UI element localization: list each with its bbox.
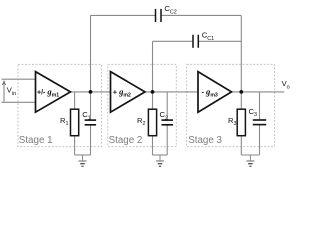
wire stage3 output to Vo — [232, 91, 285, 93]
capacitor C1 — [85, 120, 97, 125]
resistor R1 — [71, 109, 79, 136]
svg-text:Stage 3: Stage 3 — [188, 135, 222, 146]
wire R1 riser — [74, 92, 76, 109]
wire ground join stage1 — [75, 154, 91, 156]
capacitor C3 — [253, 120, 266, 125]
svg-text:Stage 1: Stage 1 — [19, 135, 53, 146]
wire node A riser to CC2 and down to C1 — [90, 15, 92, 120]
wire stage2 output to stage3 input — [145, 91, 198, 93]
wire C1 bottom — [90, 125, 92, 155]
output node junction dot — [239, 90, 243, 94]
wire R2 bottom — [152, 136, 154, 155]
capacitor CC1 — [193, 35, 198, 48]
wire C2 bottom — [166, 125, 168, 155]
op-amp gm3 — [198, 72, 232, 113]
wire ground join stage2 — [153, 154, 168, 156]
stage 2 dashed box — [108, 64, 177, 146]
capacitor CC2 — [156, 9, 162, 22]
ground stage2 — [156, 155, 164, 166]
wire C2 riser — [166, 92, 168, 120]
wire CC1 left horizontal — [153, 40, 194, 42]
wire stage1 output to stage2 input — [71, 91, 111, 93]
stage 1 dashed box — [18, 64, 102, 146]
wire output riser down to R3 — [240, 15, 242, 109]
wire C3 bottom — [259, 125, 261, 155]
op-amp gm2 — [111, 72, 146, 113]
resistor R3 — [237, 109, 245, 136]
ground stage3 — [246, 155, 254, 166]
wire CC2 right horizontal — [161, 14, 241, 16]
wire node B riser to CC1 and down to R2 — [152, 41, 154, 109]
wire Vin bottom terminal — [2, 101, 36, 103]
wire R3 bottom — [240, 136, 242, 155]
stage 3 dashed box — [187, 64, 275, 146]
svg-text:Stage 2: Stage 2 — [109, 135, 143, 146]
ground stage1 — [79, 155, 87, 166]
wire Vin top terminal — [2, 78, 36, 80]
wire ground join stage3 — [241, 154, 259, 156]
node A junction dot — [89, 90, 93, 94]
wire C3 riser — [259, 92, 261, 120]
resistor R2 — [148, 109, 156, 136]
op-amp gm1 — [36, 72, 71, 113]
node B junction dot — [151, 90, 155, 94]
wire R1 bottom — [74, 136, 76, 155]
Vin arrow — [2, 81, 5, 101]
wire CC2 left horizontal — [91, 14, 156, 16]
capacitor C2 — [162, 120, 174, 125]
wire CC1 right horizontal — [198, 40, 241, 42]
